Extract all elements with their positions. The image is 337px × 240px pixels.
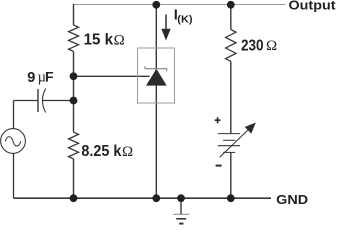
value label 15 kOhm — [84, 31, 125, 48]
AC source sine wave — [5, 137, 21, 146]
svg-text:Ω: Ω — [122, 144, 133, 160]
svg-text:(K): (K) — [177, 13, 192, 25]
node left bus GND — [70, 194, 78, 202]
battery B1 minus sign — [216, 165, 222, 167]
node battery GND — [227, 194, 235, 202]
AC source V1 circle — [1, 129, 26, 154]
battery B1 plates — [218, 134, 240, 153]
node junction dots — [70, 1, 235, 202]
wire capacitor right to bus — [43, 100, 74, 102]
node R3 top — [227, 1, 235, 9]
svg-text:15 k: 15 k — [84, 31, 114, 48]
node U1 cathode / top — [152, 1, 160, 9]
node ground stub — [177, 194, 185, 202]
label I(K) — [174, 8, 193, 26]
resistor R3 230 Ohm — [226, 30, 236, 62]
wire battery bottom to GND bus — [230, 152, 232, 198]
svg-text:230: 230 — [241, 38, 264, 55]
capacitor C1 curved plate — [42, 89, 45, 113]
wire GND bus — [14, 197, 272, 199]
resistor R2 8.25 kOhm — [69, 132, 79, 159]
svg-text:GND: GND — [276, 192, 308, 207]
op-amp U1 TL431 box — [138, 48, 175, 103]
value label 230 Ohm — [241, 38, 277, 55]
battery B1 plus sign — [215, 117, 221, 123]
resistor R1 15 kOhm — [69, 25, 79, 51]
svg-text:Ω: Ω — [114, 32, 125, 48]
wire left bus vertical top segment — [73, 4, 75, 25]
wire capacitor branch left + corner down to source — [14, 101, 39, 129]
value label 8.25 kOhm — [81, 143, 133, 160]
svg-text:8.25 k: 8.25 k — [81, 143, 121, 160]
node cap to bus — [70, 97, 78, 105]
wire left bus middle segment — [73, 51, 75, 132]
capacitor C1 9 uF straight plate — [37, 89, 39, 112]
wire AC source bottom to GND bus — [13, 154, 15, 199]
wire reference input to U1 — [74, 75, 150, 77]
wire 230 ohm to battery — [230, 61, 232, 133]
wire 230 ohm branch top lead — [230, 5, 232, 30]
wire left bus bottom segment — [73, 159, 75, 198]
ground symbol — [173, 214, 189, 223]
svg-text:Ω: Ω — [266, 38, 277, 54]
svg-text:F: F — [45, 68, 54, 84]
svg-text:9: 9 — [27, 70, 35, 86]
current arrow I(K) — [161, 15, 170, 41]
node ref divider — [70, 72, 78, 80]
wire top bus (Output net) — [74, 4, 286, 6]
value label 9 uF — [27, 68, 54, 86]
svg-text:Output: Output — [289, 0, 337, 13]
U1 shunt regulator triangle — [146, 69, 167, 86]
node U1 anode GND — [152, 194, 160, 202]
U1 cathode bar — [145, 66, 167, 71]
wire ground stub — [180, 198, 182, 214]
battery B1 variable arrow — [220, 130, 248, 157]
wire U1 cathode-anode vertical — [155, 5, 157, 199]
